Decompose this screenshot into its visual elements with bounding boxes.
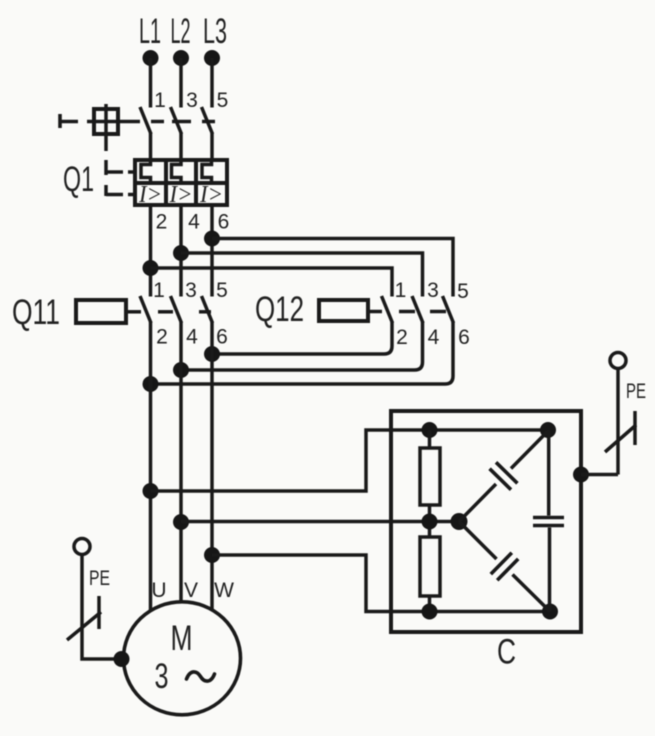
svg-text:L2: L2 bbox=[171, 12, 191, 51]
Q1 trip unit box bbox=[135, 160, 227, 205]
svg-text:PE: PE bbox=[626, 380, 646, 403]
capacitor C3 vertical wire a bbox=[547, 430, 551, 516]
Q1 contact blade pole 1 bbox=[140, 107, 151, 134]
capacitor C3 plates bbox=[533, 518, 564, 526]
junction dot phase1 feed Q12 bbox=[143, 260, 159, 276]
resistor R2 bbox=[420, 537, 440, 596]
svg-text:I>: I> bbox=[169, 182, 193, 208]
junction dot between resistors bbox=[422, 514, 438, 530]
svg-text:5: 5 bbox=[216, 279, 228, 302]
junction dot Q12 pin6 / phase1 bbox=[143, 376, 159, 392]
wire blade3 to Q1 box bbox=[210, 133, 214, 160]
wire V tap to C network center node bbox=[181, 520, 459, 524]
PE left slash bbox=[67, 612, 101, 640]
junction dot W tap bbox=[204, 547, 220, 563]
capacitor C1 diagonal top wire b bbox=[459, 484, 496, 522]
capacitor C2 plates bbox=[491, 553, 518, 581]
svg-text:I>: I> bbox=[138, 182, 162, 208]
wire Q1 out pole1 down to Q11 bbox=[149, 205, 153, 297]
junction dot Q12 pin2 / phase3 bbox=[204, 346, 220, 362]
svg-text:5: 5 bbox=[457, 280, 469, 303]
Q1 contact blade pole 2 bbox=[171, 107, 182, 134]
junction dot U tap bbox=[143, 483, 159, 499]
wire phase1 to Q12 pin1 bbox=[151, 268, 393, 297]
Q1 thermal element pole 1 bbox=[141, 160, 151, 183]
junction dot Q12 pin4 / phase2 bbox=[173, 362, 189, 378]
wire Q11 pole3 down to motor W bbox=[210, 322, 214, 611]
junction dot phase2 feed Q12 bbox=[173, 245, 189, 261]
svg-text:3: 3 bbox=[186, 89, 198, 112]
resistor R1 bbox=[420, 448, 440, 505]
Q1 manual actuator T-handle bbox=[60, 114, 78, 128]
Q1 actuator square bbox=[87, 104, 140, 151]
svg-text:4: 4 bbox=[186, 326, 198, 349]
capacitor unit box C bbox=[391, 411, 581, 632]
svg-text:I>: I> bbox=[199, 182, 223, 208]
capacitor C1 plates bbox=[490, 462, 518, 489]
junction dot C bottom-left bbox=[422, 604, 438, 620]
wire Q12 pin4 to phase2 bus bbox=[181, 322, 423, 370]
svg-text:L3: L3 bbox=[203, 12, 227, 51]
junction dot phase3 feed Q12 bbox=[204, 231, 220, 247]
wire U tap to C box top rail bbox=[151, 430, 549, 491]
capacitor C1 diagonal top wire a bbox=[511, 431, 548, 469]
Q12 linkage bbox=[368, 310, 446, 314]
wire phase2 to Q12 pin3 bbox=[181, 253, 423, 297]
wire W tap to C box bottom rail bbox=[212, 555, 550, 612]
wire phase3 to Q12 pin5 bbox=[212, 239, 453, 297]
svg-text:6: 6 bbox=[216, 326, 228, 349]
wire resistor column top bbox=[428, 430, 432, 449]
Q12 coil box bbox=[319, 300, 368, 321]
capacitor C2 diagonal bottom wire a bbox=[459, 522, 497, 560]
junction dot C box right edge PE bbox=[573, 467, 589, 483]
wire blade2 to Q1 box bbox=[179, 133, 183, 160]
svg-text:U: U bbox=[151, 579, 166, 602]
svg-text:4: 4 bbox=[188, 211, 200, 234]
svg-text:3: 3 bbox=[155, 657, 169, 696]
wire Q11 pole1 down to motor U bbox=[149, 322, 153, 611]
svg-text:L1: L1 bbox=[139, 12, 161, 51]
svg-text:3: 3 bbox=[185, 279, 197, 302]
svg-text:V: V bbox=[184, 579, 198, 602]
Q11 coil box bbox=[76, 300, 126, 323]
Q1 contact blade pole 3 bbox=[202, 107, 213, 134]
wire resistor column bottom bbox=[428, 596, 432, 612]
junction dot C bottom-right bbox=[542, 604, 558, 620]
Q1 linkage dashes bbox=[106, 160, 135, 196]
svg-text:6: 6 bbox=[218, 211, 230, 234]
terminal dot L1 bbox=[143, 50, 159, 66]
svg-text:1: 1 bbox=[154, 89, 166, 112]
wire Q12 pin6 to phase1 bus bbox=[151, 322, 454, 384]
Q11 contact blade pole 1 bbox=[140, 296, 151, 323]
Q11 linkage bbox=[126, 310, 211, 314]
svg-text:2: 2 bbox=[396, 326, 408, 349]
terminal dot L3 bbox=[204, 50, 220, 66]
junction dot C top-right bbox=[540, 422, 556, 438]
PE symbol left circle bbox=[74, 539, 90, 555]
svg-text:1: 1 bbox=[395, 279, 407, 302]
PE right slash bbox=[605, 425, 636, 452]
wire L3 to Q1 contact bbox=[210, 58, 214, 108]
svg-text:Q1: Q1 bbox=[63, 160, 94, 199]
PE symbol right circle bbox=[610, 353, 626, 369]
wire Q12 pin2 to phase3 bus bbox=[212, 322, 392, 354]
Q12 contact blade pole 1 bbox=[382, 296, 393, 323]
junction dot C top-left bbox=[422, 422, 438, 438]
center node dot bbox=[451, 513, 468, 530]
wire between resistors bbox=[428, 505, 432, 537]
svg-text:W: W bbox=[214, 579, 234, 602]
Q1 linkage ticks bbox=[151, 120, 215, 124]
junction dot V tap bbox=[173, 514, 189, 530]
svg-text:PE: PE bbox=[89, 567, 110, 590]
Q12 contact blade pole 3 bbox=[443, 296, 454, 323]
motor M1 circle bbox=[124, 602, 241, 715]
wire L2 to Q1 contact bbox=[179, 58, 183, 108]
svg-text:2: 2 bbox=[156, 211, 168, 234]
svg-text:3: 3 bbox=[427, 279, 439, 302]
svg-text:C: C bbox=[497, 633, 516, 672]
wire Q1 out pole2 down to Q11 bbox=[179, 205, 183, 297]
wire blade1 to Q1 box bbox=[149, 133, 153, 160]
svg-text:4: 4 bbox=[428, 326, 440, 349]
Q11 contact blade pole 3 bbox=[202, 296, 213, 323]
PE left contact bar bbox=[97, 596, 101, 629]
svg-text:6: 6 bbox=[458, 326, 470, 349]
svg-text:Q12: Q12 bbox=[255, 290, 304, 329]
wire PE left down bbox=[82, 555, 121, 660]
svg-text:M: M bbox=[171, 619, 193, 658]
motor ~ symbol bbox=[187, 672, 215, 681]
svg-text:5: 5 bbox=[217, 89, 229, 112]
wire L1 to Q1 contact bbox=[149, 58, 153, 108]
wire PE right to box bbox=[581, 473, 618, 477]
wire Q11 pole2 down to motor V bbox=[179, 322, 183, 602]
wire PE right vertical bbox=[616, 368, 620, 475]
capacitor C3 vertical wire b bbox=[548, 528, 552, 612]
wire Q1 out pole3 down to Q11 bbox=[210, 205, 214, 297]
Q1 thermal element pole 3 bbox=[202, 160, 212, 183]
Q12 contact blade pole 2 bbox=[412, 296, 423, 323]
Q1 thermal element pole 2 bbox=[172, 160, 182, 183]
PE right contact bar bbox=[633, 411, 637, 445]
capacitor C2 diagonal bottom wire b bbox=[513, 575, 551, 612]
junction dot PE to motor frame bbox=[114, 651, 130, 667]
svg-text:1: 1 bbox=[153, 279, 165, 302]
svg-text:Q11: Q11 bbox=[12, 293, 60, 332]
terminal dot L2 bbox=[173, 50, 189, 66]
Q11 contact blade pole 2 bbox=[171, 296, 182, 323]
svg-text:2: 2 bbox=[156, 326, 168, 349]
